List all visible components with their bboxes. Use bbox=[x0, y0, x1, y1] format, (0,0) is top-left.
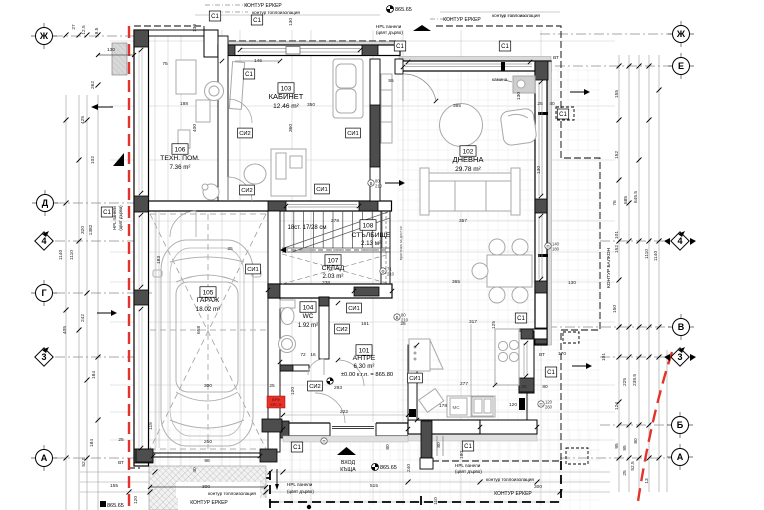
svg-text:1140: 1140 bbox=[58, 250, 64, 261]
svg-text:А: А bbox=[41, 453, 48, 463]
svg-text:130: 130 bbox=[568, 280, 576, 286]
svg-text:25: 25 bbox=[269, 383, 275, 389]
svg-text:1110: 1110 bbox=[644, 249, 650, 259]
svg-text:КРС.В: КРС.В bbox=[270, 403, 281, 407]
svg-text:HPL панели: HPL панели bbox=[112, 206, 117, 230]
svg-text:106: 106 bbox=[175, 146, 186, 153]
svg-text:СТЪЛБИЩЕ: СТЪЛБИЩЕ bbox=[352, 232, 391, 239]
svg-text:360: 360 bbox=[288, 124, 294, 132]
svg-text:658: 658 bbox=[196, 326, 202, 334]
svg-text:155: 155 bbox=[110, 483, 118, 489]
svg-text:(цвят дърво): (цвят дърво) bbox=[376, 30, 403, 35]
svg-text:277: 277 bbox=[460, 381, 468, 387]
svg-text:320: 320 bbox=[80, 226, 86, 234]
svg-text:КОНТУР ЕРКЕР: КОНТУР ЕРКЕР bbox=[244, 3, 282, 9]
svg-text:108: 108 bbox=[363, 222, 374, 229]
svg-text:120: 120 bbox=[290, 387, 296, 395]
svg-text:ГАРАЖ: ГАРАЖ bbox=[197, 297, 220, 304]
svg-text:260: 260 bbox=[545, 405, 553, 410]
svg-text:(цвят дърво): (цвят дърво) bbox=[287, 489, 314, 494]
svg-text:16: 16 bbox=[310, 352, 316, 358]
svg-text:210: 210 bbox=[401, 318, 409, 323]
svg-text:4: 4 bbox=[677, 236, 682, 246]
svg-text:C1: C1 bbox=[547, 370, 555, 376]
svg-text:контур топлоизолация: контур топлоизолация bbox=[486, 477, 534, 482]
svg-text:25: 25 bbox=[227, 246, 233, 252]
svg-text:865.65: 865.65 bbox=[380, 465, 397, 471]
svg-text:238: 238 bbox=[322, 280, 330, 286]
svg-text:C1: C1 bbox=[211, 14, 219, 20]
svg-text:240: 240 bbox=[406, 464, 412, 472]
svg-text:130: 130 bbox=[107, 47, 115, 53]
svg-text:184: 184 bbox=[91, 371, 97, 379]
svg-text:ВТ: ВТ bbox=[539, 352, 545, 358]
svg-text:76: 76 bbox=[612, 200, 618, 206]
svg-text:Б: Б bbox=[677, 420, 684, 430]
svg-text:СИ1: СИ1 bbox=[316, 187, 328, 193]
svg-text:130: 130 bbox=[288, 18, 294, 26]
svg-text:40: 40 bbox=[549, 101, 555, 107]
svg-text:180: 180 bbox=[459, 451, 465, 459]
svg-text:(цвят дърво): (цвят дърво) bbox=[118, 205, 123, 231]
svg-text:300: 300 bbox=[202, 484, 210, 490]
svg-text:СИ1: СИ1 bbox=[409, 376, 421, 382]
svg-text:КОНТУР ЕРКЕР: КОНТУР ЕРКЕР bbox=[190, 500, 228, 506]
svg-text:400: 400 bbox=[192, 124, 198, 132]
svg-text:29.78 m²: 29.78 m² bbox=[455, 166, 481, 173]
svg-text:52.5: 52.5 bbox=[630, 461, 636, 471]
svg-text:Д: Д bbox=[42, 198, 49, 208]
svg-text:225: 225 bbox=[622, 378, 628, 386]
svg-text:3: 3 bbox=[677, 352, 682, 362]
svg-text:150: 150 bbox=[612, 305, 618, 313]
svg-text:ВТ: ВТ bbox=[553, 55, 559, 61]
svg-text:СИ2: СИ2 bbox=[336, 327, 348, 333]
svg-text:СИ1: СИ1 bbox=[348, 306, 360, 312]
svg-text:110: 110 bbox=[433, 497, 439, 505]
svg-text:ДНЕВНА: ДНЕВНА bbox=[453, 155, 484, 164]
svg-text:HPL панели: HPL панели bbox=[287, 482, 313, 487]
svg-text:125: 125 bbox=[491, 321, 497, 329]
svg-text:HPL панели: HPL панели bbox=[376, 24, 402, 29]
svg-text:Г: Г bbox=[41, 288, 46, 298]
svg-text:104: 104 bbox=[303, 304, 314, 311]
svg-text:146: 146 bbox=[254, 58, 262, 64]
svg-text:350: 350 bbox=[307, 102, 315, 108]
svg-text:210: 210 bbox=[375, 184, 383, 189]
svg-text:385: 385 bbox=[453, 103, 461, 109]
svg-text:C1: C1 bbox=[253, 18, 261, 24]
svg-text:КЪЩА: КЪЩА bbox=[340, 467, 356, 473]
svg-text:105: 105 bbox=[203, 289, 214, 296]
svg-text:В: В bbox=[678, 322, 685, 332]
svg-text:95: 95 bbox=[614, 443, 620, 449]
svg-text:7.36 m²: 7.36 m² bbox=[170, 164, 191, 171]
svg-text:80: 80 bbox=[385, 444, 391, 450]
svg-text:120: 120 bbox=[509, 402, 517, 408]
svg-text:365: 365 bbox=[452, 279, 460, 285]
svg-text:12.5: 12.5 bbox=[81, 25, 87, 35]
svg-text:СИ1: СИ1 bbox=[347, 131, 359, 137]
svg-text:1.92 m²: 1.92 m² bbox=[298, 323, 318, 329]
svg-text:178: 178 bbox=[439, 403, 447, 409]
svg-text:Ж: Ж bbox=[676, 29, 686, 39]
svg-text:55: 55 bbox=[388, 78, 394, 84]
svg-text:СИ2: СИ2 bbox=[241, 188, 253, 194]
svg-text:102: 102 bbox=[90, 156, 96, 164]
svg-text:130: 130 bbox=[516, 92, 522, 100]
svg-text:Е: Е bbox=[678, 61, 684, 71]
svg-text:262: 262 bbox=[90, 81, 96, 89]
svg-text:камина: камина bbox=[492, 77, 508, 82]
svg-text:C1: C1 bbox=[501, 44, 509, 50]
svg-text:188: 188 bbox=[180, 101, 188, 107]
svg-text:1140: 1140 bbox=[653, 251, 659, 262]
svg-text:контур топлоизолация: контур топлоизолация bbox=[208, 491, 256, 496]
svg-text:КОНТУР БАЛКОН: КОНТУР БАЛКОН bbox=[606, 248, 612, 288]
svg-text:130: 130 bbox=[192, 24, 198, 32]
svg-text:6.30 m²: 6.30 m² bbox=[354, 363, 375, 370]
svg-text:ТЕХН. ПОМ.: ТЕХН. ПОМ. bbox=[160, 155, 200, 162]
svg-text:40: 40 bbox=[192, 467, 198, 473]
svg-text:18.02 m²: 18.02 m² bbox=[196, 306, 220, 313]
svg-text:контур топлоизолация: контур топлоизолация bbox=[492, 13, 540, 18]
svg-text:242: 242 bbox=[80, 314, 86, 322]
svg-text:180: 180 bbox=[552, 247, 560, 252]
svg-text:СКЛАД: СКЛАД bbox=[322, 265, 345, 272]
svg-text:2.03 m²: 2.03 m² bbox=[323, 273, 344, 280]
svg-text:АНТРЕ: АНТРЕ bbox=[353, 355, 376, 362]
svg-text:293: 293 bbox=[334, 385, 342, 391]
svg-text:C1: C1 bbox=[517, 316, 525, 322]
svg-text:П: П bbox=[546, 244, 549, 249]
svg-text:80: 80 bbox=[436, 442, 442, 448]
svg-text:В: В bbox=[370, 181, 373, 186]
svg-text:80: 80 bbox=[633, 438, 639, 444]
svg-text:685: 685 bbox=[623, 196, 629, 204]
svg-text:HPL панели: HPL панели bbox=[455, 463, 481, 468]
svg-text:52.5: 52.5 bbox=[81, 457, 87, 467]
svg-text:ВРФ: ВРФ bbox=[272, 398, 280, 402]
svg-text:WC: WC bbox=[303, 313, 314, 320]
svg-text:13: 13 bbox=[644, 478, 650, 484]
svg-text:865.65: 865.65 bbox=[395, 7, 412, 13]
svg-text:Ж: Ж bbox=[39, 31, 49, 41]
svg-text:18ст. 17/28 см: 18ст. 17/28 см bbox=[288, 225, 327, 231]
svg-text:425: 425 bbox=[80, 116, 86, 124]
svg-text:(цвят дърво): (цвят дърво) bbox=[455, 469, 482, 474]
svg-text:C1: C1 bbox=[245, 72, 253, 78]
svg-text:222: 222 bbox=[340, 409, 348, 415]
svg-text:±0.00 к.г.п. = 865.80: ±0.00 к.г.п. = 865.80 bbox=[341, 372, 393, 378]
svg-text:152: 152 bbox=[614, 245, 620, 253]
svg-text:C1: C1 bbox=[396, 44, 404, 50]
svg-text:119: 119 bbox=[148, 422, 154, 430]
svg-text:152: 152 bbox=[614, 151, 620, 159]
svg-text:C1: C1 bbox=[293, 445, 301, 451]
svg-text:124: 124 bbox=[614, 402, 620, 410]
svg-text:300: 300 bbox=[534, 484, 542, 490]
svg-text:405: 405 bbox=[62, 326, 68, 334]
svg-text:1382: 1382 bbox=[88, 224, 94, 235]
svg-text:27: 27 bbox=[71, 24, 77, 30]
svg-text:107: 107 bbox=[328, 257, 339, 264]
svg-text:12.46 m²: 12.46 m² bbox=[273, 103, 299, 110]
svg-text:170: 170 bbox=[558, 351, 566, 357]
svg-text:ВХОД: ВХОД bbox=[341, 460, 355, 466]
svg-text:25: 25 bbox=[622, 470, 628, 476]
svg-text:25: 25 bbox=[537, 101, 543, 107]
svg-text:515: 515 bbox=[370, 483, 378, 489]
svg-text:КОНТУР ЕРКЕР: КОНТУР ЕРКЕР bbox=[494, 491, 532, 497]
svg-text:155: 155 bbox=[614, 90, 620, 98]
svg-text:75: 75 bbox=[162, 61, 168, 67]
svg-text:25: 25 bbox=[118, 437, 124, 443]
svg-text:КАБИНЕТ: КАБИНЕТ bbox=[269, 92, 304, 101]
svg-text:317: 317 bbox=[469, 319, 477, 325]
svg-text:184: 184 bbox=[89, 439, 95, 447]
svg-text:130: 130 bbox=[536, 166, 542, 174]
svg-text:101: 101 bbox=[614, 231, 620, 239]
svg-text:C1: C1 bbox=[464, 444, 472, 450]
svg-text:контур топлоизолация: контур топлоизолация bbox=[252, 10, 300, 15]
svg-text:357: 357 bbox=[459, 218, 467, 224]
svg-text:КОНТУР ЕРКЕР: КОНТУР ЕРКЕР bbox=[443, 17, 481, 23]
svg-text:П: П bbox=[322, 439, 325, 444]
svg-text:865.65: 865.65 bbox=[107, 503, 124, 509]
svg-text:МС: МС bbox=[453, 405, 461, 410]
svg-text:120: 120 bbox=[133, 496, 139, 504]
svg-text:278: 278 bbox=[331, 218, 339, 224]
svg-text:C1: C1 bbox=[559, 112, 567, 118]
svg-text:1110: 1110 bbox=[69, 250, 75, 260]
svg-text:C1: C1 bbox=[103, 210, 111, 216]
svg-text:98: 98 bbox=[204, 458, 210, 464]
svg-text:210: 210 bbox=[387, 272, 395, 277]
svg-text:250: 250 bbox=[204, 439, 212, 445]
svg-text:3: 3 bbox=[41, 352, 46, 362]
svg-text:183: 183 bbox=[156, 256, 162, 264]
svg-text:2.13 м²: 2.13 м² bbox=[361, 240, 381, 247]
svg-text:95: 95 bbox=[622, 445, 628, 451]
svg-text:вратичка за достъп: вратичка за достъп bbox=[399, 226, 403, 260]
svg-text:А: А bbox=[677, 452, 684, 462]
svg-text:ВТ: ВТ bbox=[118, 460, 124, 466]
svg-text:72: 72 bbox=[300, 352, 306, 358]
svg-text:25: 25 bbox=[521, 384, 527, 390]
svg-text:СИ2: СИ2 bbox=[239, 131, 251, 137]
svg-text:Ф: Ф bbox=[381, 269, 384, 274]
svg-text:101: 101 bbox=[601, 353, 607, 361]
svg-text:161: 161 bbox=[361, 321, 369, 327]
svg-text:СИ2: СИ2 bbox=[309, 384, 321, 390]
svg-text:В: В bbox=[396, 315, 399, 320]
svg-text:101: 101 bbox=[359, 347, 370, 354]
svg-text:СИ1: СИ1 bbox=[247, 267, 259, 273]
svg-text:4: 4 bbox=[41, 236, 46, 246]
svg-text:9.5: 9.5 bbox=[94, 27, 100, 34]
svg-text:239.5: 239.5 bbox=[632, 374, 638, 386]
svg-text:80: 80 bbox=[542, 384, 548, 390]
svg-text:П: П bbox=[539, 402, 542, 407]
svg-text:645.5: 645.5 bbox=[633, 191, 639, 203]
svg-text:300: 300 bbox=[204, 383, 212, 389]
